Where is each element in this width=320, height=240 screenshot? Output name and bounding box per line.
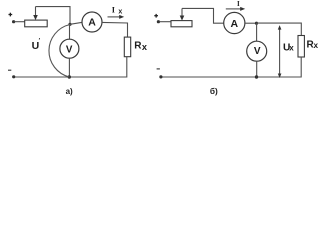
svg-text:а): а) <box>66 87 73 96</box>
terminal - (circuit a) <box>8 69 11 71</box>
svg-text:A: A <box>231 18 239 30</box>
svg-text:x: x <box>142 42 148 52</box>
node: voltmeter bottom junction (circuit a) <box>68 75 71 78</box>
svg-text:V: V <box>254 46 261 57</box>
label U' (circuit a) <box>32 39 41 52</box>
caption a) <box>66 87 73 96</box>
wire: voltmeter bottom stub (circuit a) <box>68 58 70 77</box>
voltage arrow Ux (circuit b) <box>278 25 282 78</box>
label Rx (circuit a) <box>134 40 148 52</box>
rheostat wiper arrow (circuit a) <box>33 7 38 21</box>
node: positive terminal dot (circuit b) <box>157 20 160 23</box>
current label Ix with arrow (circuit a) <box>108 5 125 19</box>
caption b) <box>210 86 218 96</box>
terminal - (circuit b) <box>157 68 160 70</box>
ammeter A1 (circuit a) <box>82 12 102 32</box>
wire: voltmeter bottom stub (circuit b) <box>256 61 258 77</box>
wire: ammeter to Rx top (circuit a) <box>102 22 128 37</box>
rheostat R (circuit a) <box>25 20 48 27</box>
svg-text:x: x <box>314 41 319 50</box>
node: voltmeter top junction (circuit a) <box>68 23 71 26</box>
svg-text:x: x <box>118 9 122 16</box>
ammeter A2 (circuit b) <box>224 12 245 33</box>
node: positive terminal dot (circuit a) <box>12 20 15 23</box>
wire: ammeter to voltmeter junction (circuit b) <box>245 22 257 24</box>
svg-text:V: V <box>66 44 73 55</box>
node: negative terminal dot (circuit b) <box>159 75 162 78</box>
wire: junction to Rx top (circuit b) <box>257 23 302 35</box>
svg-text:A: A <box>88 17 96 29</box>
wire: wiper up right and down to ammeter (circuit b) <box>182 8 224 23</box>
voltage arc U' (circuit a) <box>49 25 70 78</box>
wire: Rx bottom to bottom rail (circuit b) <box>161 57 301 77</box>
wire: voltmeter top stub (circuit a) <box>69 24 71 39</box>
node: voltmeter bottom junction (circuit b) <box>255 75 258 78</box>
voltmeter V1 (circuit a) <box>60 39 79 58</box>
resistor Rx (circuit a) <box>124 37 130 57</box>
label Ux (circuit b) <box>283 42 294 53</box>
wire: voltmeter top stub (circuit b) <box>256 23 258 41</box>
wire: plus terminal to rheostat (circuit b) <box>159 21 171 23</box>
resistor Rx (circuit b) <box>298 36 304 58</box>
voltmeter V2 (circuit b) <box>247 41 267 61</box>
terminal + (circuit a) <box>9 13 13 17</box>
svg-text:I: I <box>237 0 240 8</box>
terminal + (circuit b) <box>154 14 158 18</box>
wire: Rx bottom to bottom rail (circuit a) <box>14 57 127 77</box>
rheostat R (circuit b) <box>171 21 192 27</box>
rheostat wiper arrow (circuit b) <box>180 8 185 20</box>
wire: wiper up and right to junction (circuit a) <box>36 7 71 24</box>
current label I with arrow (circuit b) <box>226 0 245 11</box>
node: voltmeter top junction (circuit b) <box>255 22 258 25</box>
wire: plus terminal to rheostat (circuit a) <box>15 21 25 23</box>
wire: junction to ammeter (circuit a) <box>70 22 82 24</box>
svg-text:б): б) <box>210 86 218 96</box>
node: negative terminal dot (circuit a) <box>12 75 15 78</box>
label Rx (circuit b) <box>307 40 319 51</box>
svg-text:x: x <box>289 44 294 53</box>
svg-text:I: I <box>112 5 115 14</box>
